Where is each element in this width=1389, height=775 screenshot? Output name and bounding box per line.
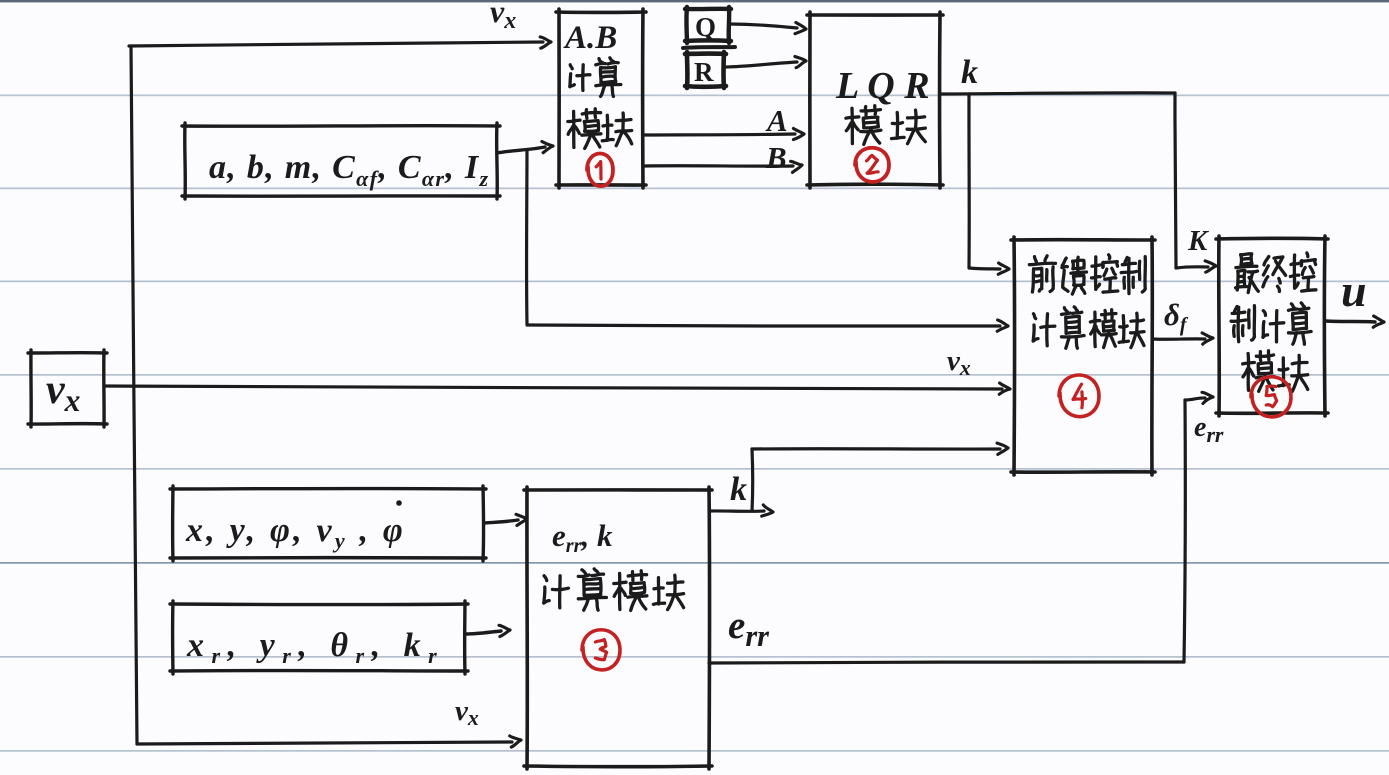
box3 text ji suan mo kuai	[544, 576, 569, 608]
svg-text:Q: Q	[695, 12, 716, 42]
box5 line1 zui zhong kong	[1236, 254, 1259, 293]
circled 1	[587, 154, 613, 187]
wire k: box3 stub output	[709, 509, 764, 513]
wire R to box2	[725, 62, 797, 67]
box Q	[685, 7, 731, 12]
circled 3	[582, 630, 620, 670]
svg-text:L Q R: L Q R	[835, 65, 930, 107]
wire params: branch down	[525, 150, 529, 324]
page top border line	[0, 0, 1389, 2]
wire xy box to box3	[484, 520, 518, 523]
box5 line3 mo kuai	[1243, 351, 1274, 392]
box5 line2 zhi ji suan	[1231, 306, 1254, 342]
wire vx: middle branch to box4	[104, 386, 1002, 389]
wire params: a,b,m box to box1	[497, 147, 545, 153]
wire k: down to box5	[1175, 93, 1176, 267]
box4 line1 qian kui kong zhi	[1029, 256, 1055, 292]
wire u: box5 output	[1326, 321, 1375, 322]
svg-text:B: B	[765, 140, 787, 175]
svg-text:A: A	[765, 103, 788, 138]
box4 feedforward calc module	[1011, 238, 1155, 242]
box1 text mo kuai (module)	[568, 109, 601, 149]
wire vx: bottom branch to box3	[137, 742, 512, 744]
box reference inputs	[170, 602, 468, 606]
svg-text:R: R	[694, 57, 714, 87]
svg-text:x, y, φ, vy​ , φ: x, y, φ, vy​ , φ	[185, 512, 406, 553]
box4 line2 ji suan mo kuai	[1033, 314, 1055, 346]
wire params: horizontal to box4	[527, 325, 1000, 326]
box2 LQR module	[807, 13, 943, 17]
box vx source	[28, 351, 107, 355]
box params a,b,m,Caf,Car,Iz	[182, 124, 500, 128]
svg-text:u: u	[1341, 265, 1367, 316]
wire k: branch down to box4	[967, 94, 970, 267]
box1 text ji suan (calc)	[570, 65, 590, 91]
box3 err,k calc module	[524, 488, 712, 492]
svg-text:k: k	[730, 471, 747, 508]
box xy state inputs	[170, 487, 486, 491]
wire delta_f: box4 to box5	[1153, 337, 1205, 341]
wire k: box2 output horizontal	[940, 93, 1175, 94]
circled 4	[1059, 375, 1099, 417]
wire B: box1 to box2	[644, 164, 793, 168]
box1 A,B calc module	[556, 10, 646, 14]
box R	[685, 51, 726, 56]
svg-text:K: K	[1187, 225, 1209, 257]
svg-text:a, b, m, Cαf​, Cαr​, Iz: a, b, m, Cαf​, Cαr​, Iz	[209, 149, 489, 191]
box5 final control calc module	[1216, 236, 1328, 240]
circled 2	[855, 148, 889, 182]
ruled notebook lines	[0, 95, 1389, 97]
Q underline	[683, 47, 735, 48]
box2 text mo kuai	[846, 106, 881, 145]
circled 5	[1251, 377, 1291, 417]
wire xr box to box3	[466, 631, 501, 634]
wire A: box1 to box2	[644, 134, 795, 135]
svg-text:A.B: A.B	[563, 20, 617, 56]
wire err: box3 to box5	[709, 662, 1184, 663]
svg-text:err​, k: err​, k	[552, 518, 613, 557]
wire vx: top branch to box1	[129, 42, 543, 46]
svg-text:k: k	[961, 54, 978, 91]
wire k: box3 up branch	[750, 449, 754, 511]
wire vx: vertical trunk	[131, 46, 137, 744]
wire Q to box2	[730, 24, 797, 28]
